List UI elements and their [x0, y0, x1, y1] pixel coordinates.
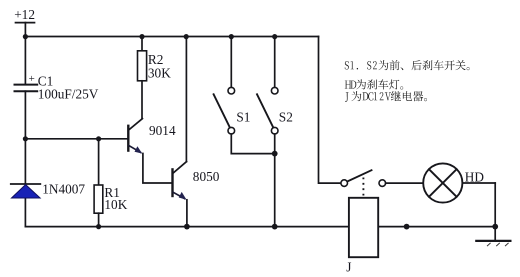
- ground hatch 3: [505, 243, 508, 246]
- wire: contact to lamp: [386, 182, 424, 184]
- transistor Q2 8050 collector diagonal: [173, 162, 187, 174]
- wire: R1 top lead: [98, 139, 100, 185]
- relay contact right terminal: [379, 180, 386, 187]
- diode D1 1N4007 triangle: [12, 185, 41, 198]
- lamp HD cross diagonal 1: [429, 169, 457, 197]
- wire: top bus to R2: [141, 37, 143, 51]
- svg-text:10K: 10K: [104, 197, 127, 212]
- wire: left rail bus to C1 top plate: [24, 37, 26, 85]
- wire: R1 bottom lead: [98, 213, 100, 226]
- relay contact left terminal: [341, 180, 348, 187]
- switch S1 top terminal: [228, 87, 235, 94]
- svg-text:1N4007: 1N4007: [42, 182, 85, 197]
- node: S2 / top bus: [272, 34, 277, 39]
- note line 1: S1.S2 are front/rear brake switches: [345, 60, 470, 70]
- transistor Q2 8050 emitter arrowhead: [179, 192, 187, 200]
- transistor Q1 9014 emitter diagonal: [129, 146, 141, 153]
- node: S1-S2 junction: [272, 151, 278, 157]
- switch S2 lever: [257, 94, 273, 127]
- diode D1 1N4007 cathode bar: [11, 183, 41, 185]
- node: R2 / top bus: [139, 34, 144, 39]
- resistor R1 body: [94, 185, 103, 213]
- svg-text:8050: 8050: [193, 169, 220, 184]
- switch S2 bottom terminal: [271, 127, 278, 134]
- svg-text:9014: 9014: [149, 123, 176, 138]
- capacitor C1 top plate: [15, 84, 38, 86]
- svg-text:HD: HD: [465, 169, 485, 184]
- wire: lamp to right rail: [462, 182, 495, 184]
- ground bar: [476, 240, 510, 242]
- svg-text:30K: 30K: [148, 65, 171, 80]
- wire: R2 bottom to Q1 collector: [141, 81, 143, 119]
- wire: Q2 collector to top bus: [185, 37, 187, 162]
- switch S1 bottom terminal: [228, 127, 235, 134]
- node: Q2 emitter / bottom bus: [184, 224, 190, 230]
- wire: right rail down to ground: [494, 183, 496, 241]
- capacitor C1 bottom plate: [15, 90, 38, 92]
- lamp HD body: [423, 163, 462, 202]
- node: R1 top / base wire: [96, 136, 101, 141]
- ground hatch 2: [497, 243, 500, 246]
- wire: top bus: [25, 36, 318, 38]
- wire: top bus to S1: [230, 37, 232, 88]
- transistor Q2 8050 base bar: [171, 169, 173, 196]
- wire: +12 terminal to top bus: [24, 23, 26, 37]
- note line 2: HD is the brake lamp: [345, 79, 403, 89]
- node: S2 / bottom bus: [272, 224, 278, 230]
- node: S1 / top bus: [229, 34, 234, 39]
- ground hatch 1: [487, 243, 490, 246]
- wire: diode anode to bottom bus corner: [24, 198, 26, 227]
- svg-text:S2: S2: [279, 109, 293, 124]
- resistor R2 body: [138, 51, 147, 81]
- wire: S2 bottom down to bottom bus: [274, 134, 276, 227]
- relay contact actuator dotted link: [362, 178, 364, 198]
- transistor Q1 9014 base bar: [127, 126, 129, 151]
- switch S1 lever: [214, 94, 230, 127]
- transistor Q1 9014 collector diagonal: [129, 119, 143, 130]
- svg-text:J: J: [346, 259, 351, 274]
- wire: bottom bus (relay coil to right rail): [378, 226, 495, 228]
- wire: top bus right end down to relay contact: [319, 37, 341, 184]
- svg-text:+12: +12: [14, 7, 35, 22]
- svg-text:+: +: [29, 73, 35, 85]
- wire: top bus to S2: [274, 37, 276, 88]
- node: +12 / top bus: [23, 34, 28, 39]
- wire: C1 bottom plate to diode cathode: [24, 91, 26, 184]
- wire: bottom bus (left rail to relay coil): [25, 226, 349, 228]
- node: coil return / bottom bus: [404, 224, 410, 230]
- node: right rail / bottom bus: [492, 224, 498, 230]
- node: Q2 collector / top bus: [184, 34, 189, 39]
- +12 terminal bar: [16, 22, 35, 24]
- lamp HD cross diagonal 2: [429, 169, 457, 197]
- wire: Q2 emitter to bottom bus: [186, 200, 188, 227]
- note line 3: J is DC12V relay: [345, 91, 427, 102]
- transistor Q2 8050 emitter diagonal: [173, 192, 185, 198]
- wire: S1 bottom down and right to S2 branch: [231, 134, 274, 154]
- wire: Q1 emitter down then to Q2 base: [143, 154, 172, 184]
- relay coil J body: [349, 198, 378, 257]
- svg-text:S1: S1: [236, 109, 250, 124]
- node: R1 / bottom bus: [96, 224, 101, 229]
- switch S2 top terminal: [271, 87, 278, 94]
- svg-text:100uF/25V: 100uF/25V: [38, 86, 99, 101]
- node: base wire / left rail: [23, 136, 28, 141]
- transistor Q1 9014 emitter arrowhead: [135, 146, 143, 153]
- wire: 9014 base feed from left rail: [25, 138, 127, 140]
- relay contact lever: [348, 170, 372, 181]
